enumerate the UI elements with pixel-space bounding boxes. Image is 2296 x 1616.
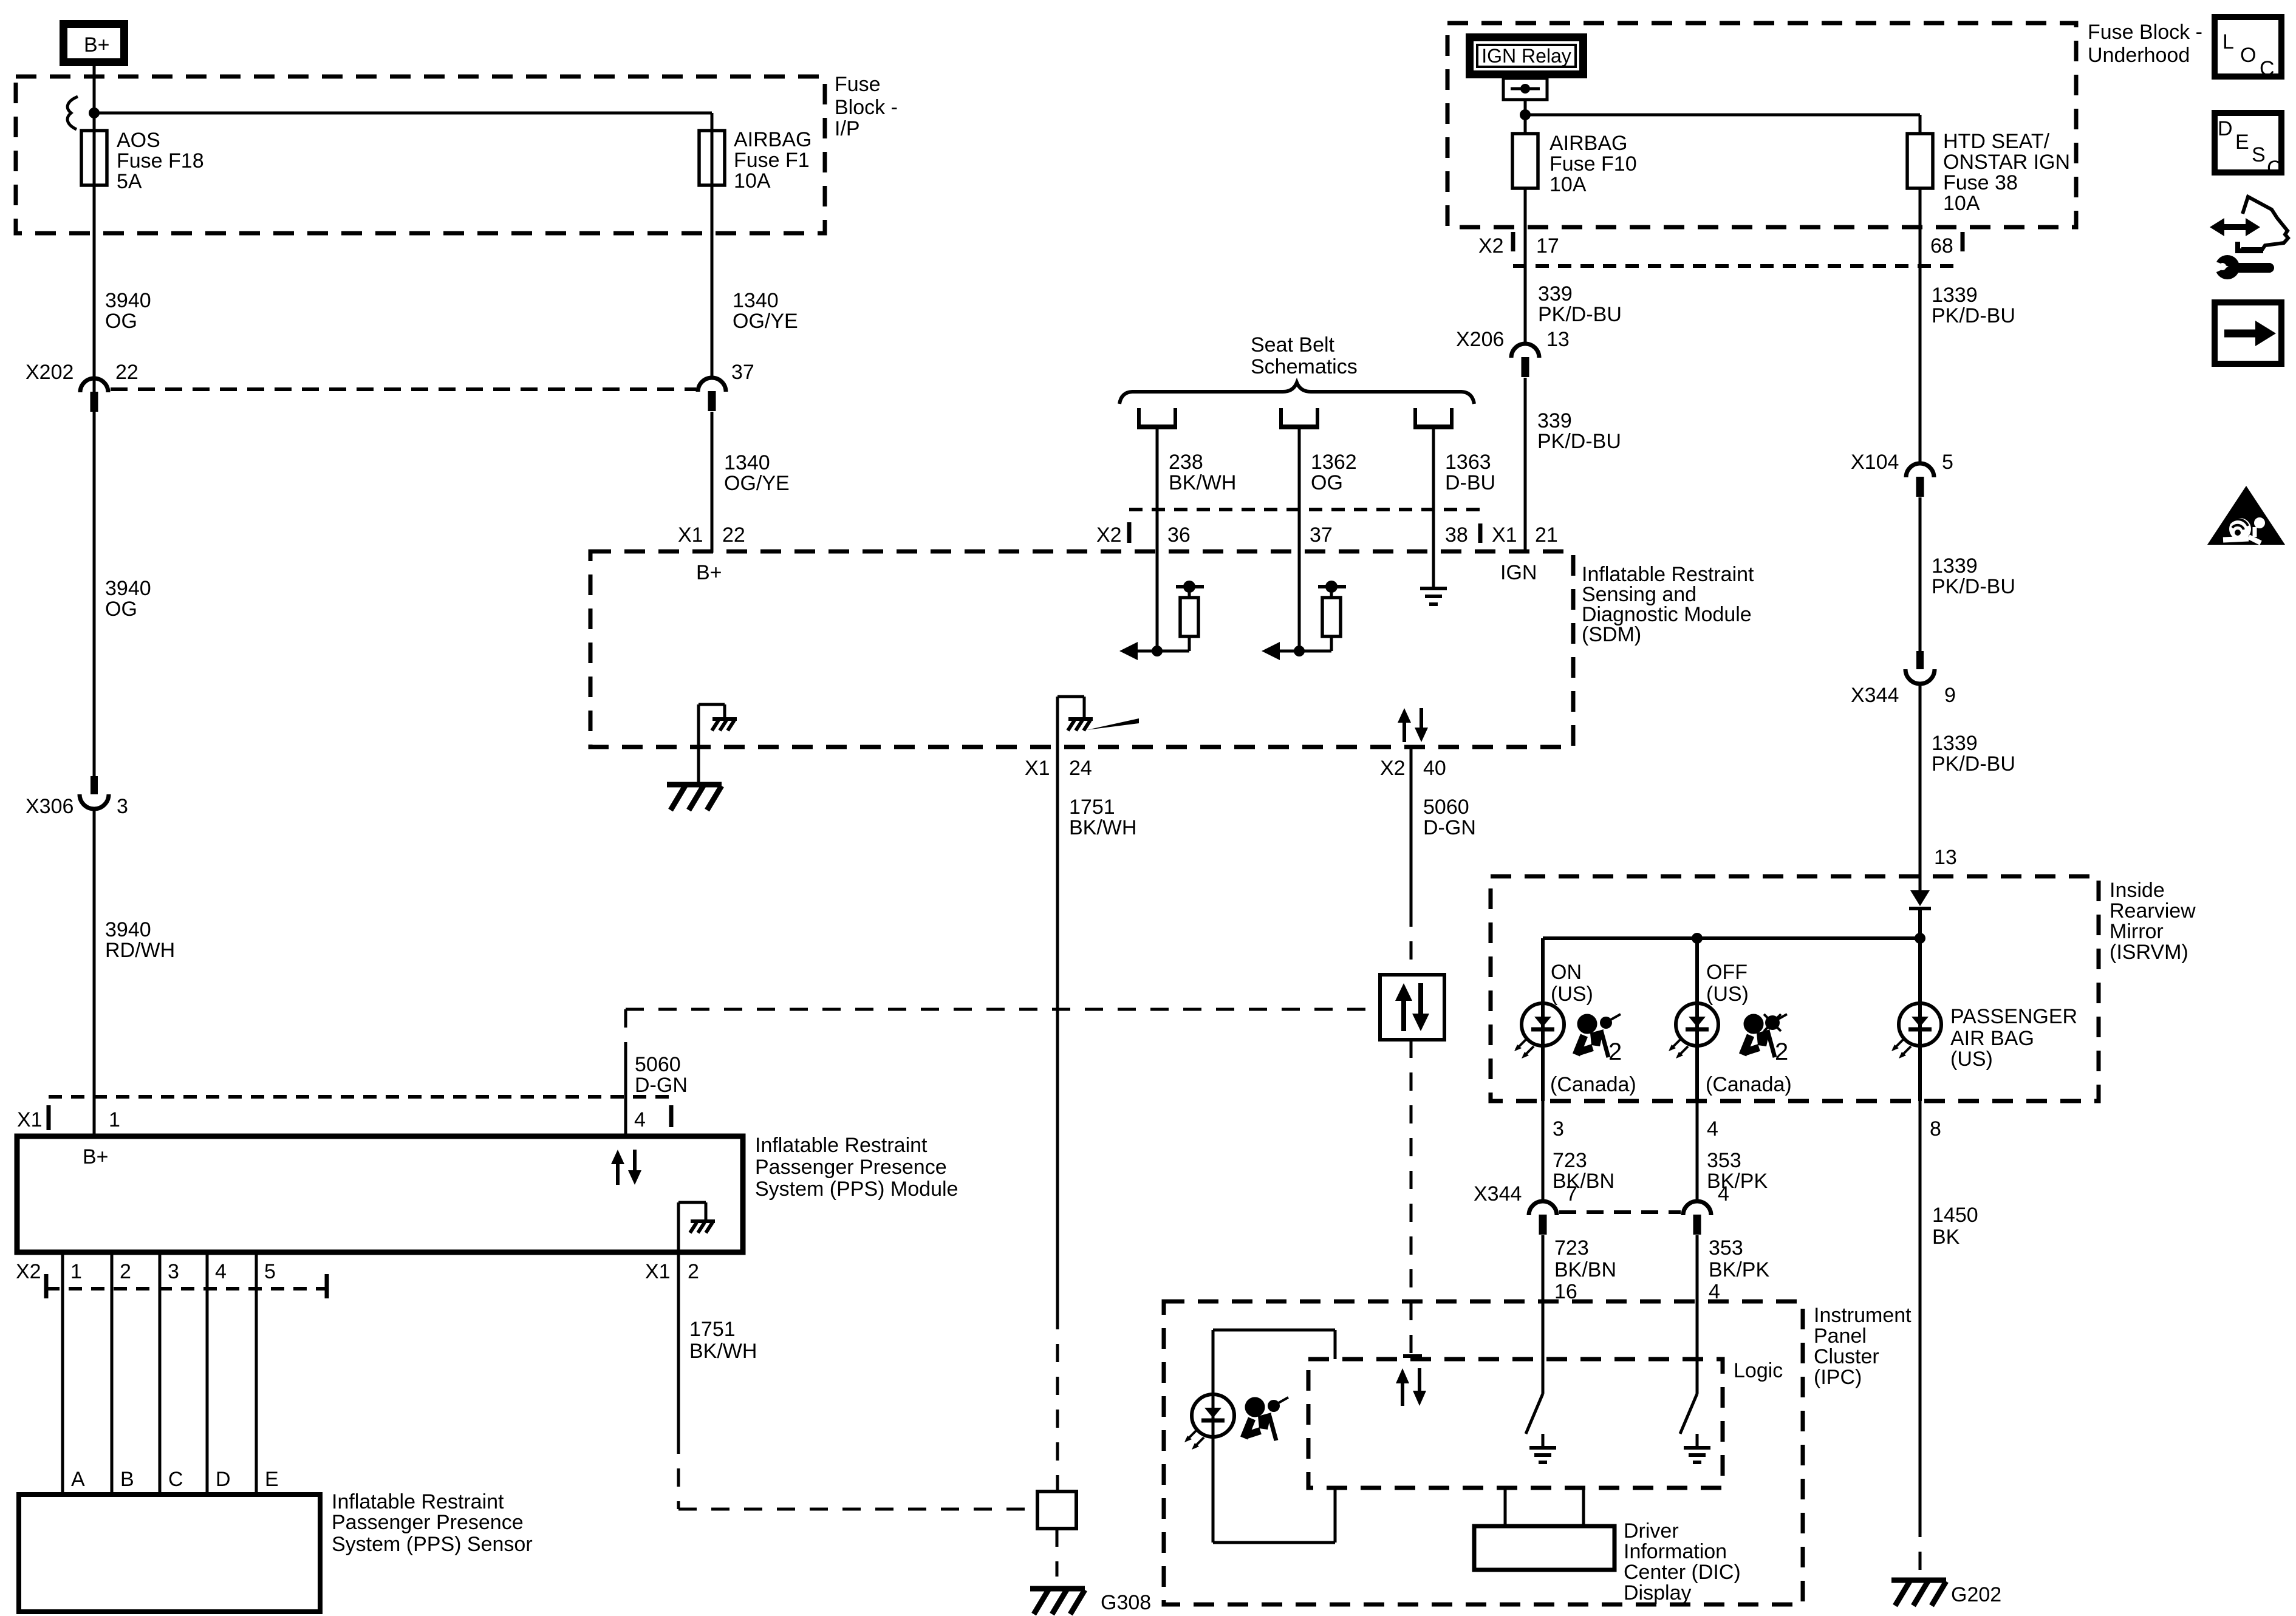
fuse block underhood dashed box — [1447, 23, 2076, 227]
svg-text:Rearview: Rearview — [2110, 899, 2196, 922]
svg-text:(IPC): (IPC) — [1814, 1366, 1862, 1389]
svg-text:9: 9 — [1944, 684, 1956, 707]
svg-text:38: 38 — [1445, 523, 1468, 547]
fuse F1 AIRBAG 10A — [711, 132, 714, 378]
brace over seat belt circuits — [1119, 383, 1474, 404]
airbag indicator icon — [1576, 1014, 1622, 1065]
diode on wire 13 — [1910, 890, 1930, 906]
svg-text:OG: OG — [105, 310, 137, 333]
svg-text:Driver: Driver — [1624, 1519, 1679, 1543]
connector X202 dashed pass-through line — [111, 387, 696, 391]
svg-text:1339: 1339 — [1932, 732, 1978, 755]
svg-text:BK/WH: BK/WH — [1169, 471, 1236, 494]
svg-text:Center (DIC): Center (DIC) — [1624, 1561, 1741, 1584]
wire 3940 OG to X306 — [93, 412, 96, 776]
wire 723 BK/BN 16 to IPC — [1542, 1235, 1545, 1394]
IPC dashed box — [1164, 1301, 1803, 1604]
wire 3940 RD/WH to PPS module — [93, 809, 96, 1136]
wire relay to fuses — [1524, 100, 1527, 135]
svg-text:353: 353 — [1707, 1149, 1741, 1172]
svg-text:1362: 1362 — [1311, 451, 1357, 474]
svg-text:AIR BAG: AIR BAG — [1950, 1027, 2034, 1050]
svg-text:353: 353 — [1709, 1236, 1743, 1260]
svg-text:BK/PK: BK/PK — [1707, 1170, 1768, 1193]
wire 5060 dashed to IPC logic — [1410, 1040, 1413, 1355]
svg-text:723: 723 — [1553, 1149, 1587, 1172]
svg-text:4: 4 — [215, 1260, 227, 1283]
svg-text:O: O — [2240, 44, 2256, 67]
SDM case ground below module — [667, 782, 722, 788]
svg-text:X202: X202 — [26, 361, 73, 384]
fuse F18 AOS 5A — [93, 113, 96, 395]
svg-text:723: 723 — [1554, 1236, 1589, 1260]
svg-text:PK/D-BU: PK/D-BU — [1932, 304, 2015, 327]
fuse block I/P dashed box — [16, 77, 825, 233]
wire 1450 BK — [1919, 1101, 1922, 1519]
svg-text:X2: X2 — [16, 1260, 41, 1283]
svg-text:3940: 3940 — [105, 289, 151, 312]
SDM module dashed box — [590, 551, 1573, 747]
svg-text:5A: 5A — [117, 170, 142, 193]
svg-text:BK: BK — [1932, 1226, 1960, 1249]
SDM seat belt input resistors — [1156, 550, 1159, 651]
lamp OFF (US) — [1695, 938, 1699, 1101]
fuse 38 HTD SEAT/ONSTAR IGN 10A — [1907, 134, 1933, 188]
ISRVM lamp supply bus — [1543, 936, 1920, 940]
svg-text:ONSTAR IGN: ONSTAR IGN — [1943, 151, 2070, 174]
SDM pin X1 21 IGN — [1524, 550, 1527, 553]
svg-text:C: C — [168, 1468, 183, 1491]
svg-text:68: 68 — [1930, 234, 1953, 257]
svg-text:(Canada): (Canada) — [1550, 1073, 1636, 1096]
svg-text:3940: 3940 — [105, 918, 151, 941]
connector X306 pin 3 — [91, 776, 98, 794]
ground G202 — [1919, 1519, 1922, 1577]
lamp PASSENGER AIR BAG (US) — [1918, 938, 1922, 1101]
svg-text:B+: B+ — [84, 33, 110, 56]
fuse F10 AIRBAG 10A — [1512, 134, 1538, 188]
svg-text:B: B — [120, 1468, 134, 1491]
PPS X2 connector bracket — [46, 1287, 327, 1290]
PPS sensor box — [19, 1495, 320, 1612]
svg-text:339: 339 — [1537, 409, 1572, 432]
svg-text:OG: OG — [105, 598, 137, 621]
connector repair icon (double arrow and terminal) — [2223, 224, 2247, 230]
svg-text:Fuse: Fuse — [835, 73, 881, 96]
svg-text:Inside: Inside — [2110, 879, 2165, 902]
svg-text:1363: 1363 — [1445, 451, 1491, 474]
svg-text:D-BU: D-BU — [1445, 471, 1495, 494]
svg-text:37: 37 — [731, 361, 754, 384]
svg-text:Inflatable Restraint: Inflatable Restraint — [755, 1134, 928, 1157]
svg-text:3: 3 — [168, 1260, 179, 1283]
svg-text:Underhood: Underhood — [2088, 44, 2190, 67]
lamp ON (US) — [1541, 938, 1545, 1101]
svg-text:X1: X1 — [1025, 757, 1050, 780]
svg-text:1751: 1751 — [689, 1318, 736, 1341]
svg-text:5: 5 — [1942, 451, 1953, 474]
svg-text:(US): (US) — [1950, 1048, 1993, 1071]
PPS up-down arrows at pin 4 — [616, 1162, 620, 1185]
svg-text:D: D — [2218, 117, 2233, 140]
svg-text:Display: Display — [1624, 1581, 1691, 1604]
seat belt circuit terminal at wire 1363 — [1413, 408, 1417, 426]
svg-text:37: 37 — [1310, 523, 1333, 547]
svg-text:X1: X1 — [645, 1260, 671, 1283]
svg-text:2: 2 — [1608, 1038, 1622, 1065]
wire bus to AIRBAG fuse F1 — [94, 112, 712, 115]
svg-text:System (PPS) Sensor: System (PPS) Sensor — [332, 1533, 533, 1556]
IGN Relay box — [1470, 38, 1584, 75]
svg-text:238: 238 — [1169, 451, 1203, 474]
wire 1751 BK/WH from SDM — [1056, 747, 1059, 1311]
seat belt circuit terminal at wire 1362 — [1279, 408, 1283, 426]
IPC airbag icon — [1244, 1397, 1288, 1440]
svg-text:BK/WH: BK/WH — [1069, 816, 1136, 839]
direction arrow box — [2215, 302, 2281, 364]
svg-text:X2: X2 — [1380, 757, 1406, 780]
svg-text:13: 13 — [1546, 328, 1570, 351]
svg-text:Passenger Presence: Passenger Presence — [332, 1511, 524, 1534]
svg-text:24: 24 — [1069, 757, 1092, 780]
svg-text:Fuse 38: Fuse 38 — [1943, 171, 2018, 194]
wire 1751 BK/WH from PPS pin X1 2 — [677, 1252, 680, 1436]
svg-text:Panel: Panel — [1814, 1325, 1867, 1348]
airbag off indicator icon (crossed) — [1743, 1014, 1788, 1065]
seat belt circuit terminal at wire 238 — [1137, 408, 1141, 426]
svg-text:X2: X2 — [1096, 523, 1122, 547]
svg-text:3: 3 — [117, 795, 128, 818]
relay contact — [1503, 78, 1547, 100]
svg-text:OG/YE: OG/YE — [724, 472, 790, 495]
svg-text:5060: 5060 — [1423, 796, 1469, 819]
svg-text:5: 5 — [264, 1260, 276, 1283]
svg-text:13: 13 — [1934, 846, 1957, 869]
svg-text:1340: 1340 — [724, 451, 770, 474]
svg-text:L: L — [2223, 30, 2234, 53]
svg-text:1340: 1340 — [733, 289, 779, 312]
ISRVM dashed box — [1491, 876, 2099, 1101]
svg-text:RD/WH: RD/WH — [105, 939, 175, 962]
svg-text:G202: G202 — [1951, 1583, 2001, 1606]
svg-text:10A: 10A — [1549, 173, 1587, 196]
svg-text:X306: X306 — [26, 795, 73, 818]
svg-text:System (PPS) Module: System (PPS) Module — [755, 1178, 958, 1201]
svg-text:BK/BN: BK/BN — [1553, 1170, 1614, 1193]
airbag caution triangle — [2207, 486, 2285, 545]
svg-text:4: 4 — [1718, 1182, 1729, 1205]
svg-text:S: S — [2252, 143, 2266, 166]
svg-text:1450: 1450 — [1932, 1204, 1978, 1227]
SDM internal ground for pin 38 — [1432, 550, 1435, 588]
SDM internal ground circuit — [697, 704, 700, 783]
svg-text:3: 3 — [1553, 1117, 1564, 1140]
svg-text:D-GN: D-GN — [635, 1074, 688, 1097]
wire 5060 D-GN from SDM — [1410, 747, 1413, 909]
battery feed B+ terminal — [64, 24, 125, 63]
svg-text:Cluster: Cluster — [1814, 1345, 1879, 1368]
svg-text:40: 40 — [1423, 757, 1446, 780]
svg-text:PK/D-BU: PK/D-BU — [1538, 303, 1622, 326]
svg-text:2: 2 — [120, 1260, 131, 1283]
svg-text:10A: 10A — [1943, 192, 1980, 215]
svg-text:PASSENGER: PASSENGER — [1950, 1005, 2077, 1028]
svg-text:C: C — [2260, 57, 2275, 80]
svg-text:X344: X344 — [1851, 684, 1899, 707]
svg-text:A: A — [71, 1468, 85, 1491]
svg-text:Fuse F18: Fuse F18 — [117, 149, 204, 172]
up-down arrows at logic input — [1401, 1381, 1404, 1406]
svg-text:AIRBAG: AIRBAG — [1549, 132, 1627, 155]
svg-text:X344: X344 — [1474, 1182, 1522, 1205]
svg-text:ON: ON — [1551, 961, 1582, 984]
svg-text:(Canada): (Canada) — [1706, 1073, 1792, 1096]
bidirectional signal box on wire 5060 — [1380, 975, 1444, 1040]
ground G308 — [1030, 1586, 1085, 1592]
svg-text:PK/D-BU: PK/D-BU — [1537, 430, 1621, 453]
PPS module connector bracket X1 — [49, 1095, 671, 1099]
wire 339 PK/D-BU to SDM — [1524, 378, 1527, 550]
svg-text:X1: X1 — [678, 523, 703, 547]
PPS module box — [17, 1136, 743, 1252]
wire 353 BK/PK label — [1696, 1101, 1699, 1201]
svg-text:1: 1 — [70, 1260, 82, 1283]
svg-text:10A: 10A — [734, 169, 771, 193]
inline connector to ground — [1037, 1492, 1076, 1529]
svg-text:C: C — [2267, 157, 2282, 180]
svg-text:BK/WH: BK/WH — [689, 1340, 757, 1363]
wire 1751 dashed from SDM to connector — [1056, 1311, 1059, 1492]
svg-text:22: 22 — [115, 361, 138, 384]
wire B+ to fuse block — [93, 66, 96, 113]
svg-text:22: 22 — [722, 523, 745, 547]
svg-text:PK/D-BU: PK/D-BU — [1932, 575, 2015, 598]
svg-text:B+: B+ — [83, 1145, 109, 1168]
svg-text:X2: X2 — [1478, 234, 1504, 257]
svg-text:(SDM): (SDM) — [1582, 623, 1641, 646]
junction dot at B+ bus — [89, 107, 100, 118]
svg-text:Fuse F1: Fuse F1 — [734, 149, 810, 172]
svg-text:D: D — [216, 1468, 231, 1491]
svg-text:B+: B+ — [696, 561, 722, 584]
svg-text:G308: G308 — [1101, 1591, 1151, 1614]
svg-text:E: E — [2235, 131, 2249, 154]
svg-text:17: 17 — [1536, 234, 1559, 257]
svg-text:Instrument: Instrument — [1814, 1304, 1912, 1327]
svg-text:X1: X1 — [1492, 523, 1517, 547]
svg-text:1339: 1339 — [1932, 284, 1978, 307]
svg-text:339: 339 — [1538, 282, 1573, 305]
wire 1340 OG/YE below connector — [711, 412, 714, 550]
svg-text:Schematics: Schematics — [1251, 355, 1358, 378]
svg-text:IGN Relay: IGN Relay — [1481, 45, 1571, 67]
wrench icon — [2215, 255, 2240, 279]
svg-text:Fuse Block -: Fuse Block - — [2088, 21, 2202, 44]
svg-text:X206: X206 — [1456, 328, 1504, 351]
svg-text:D-GN: D-GN — [1423, 816, 1476, 839]
IPC airbag warning lamp loop — [1213, 1329, 1335, 1332]
SDM connector bracket X2 pins 36 37 38 — [1129, 508, 1480, 511]
DESC legend box — [2215, 113, 2281, 172]
svg-text:OFF: OFF — [1706, 961, 1748, 984]
connector X344 pin 9 — [1916, 651, 1924, 669]
svg-text:OG: OG — [1311, 471, 1343, 494]
svg-text:8: 8 — [1930, 1117, 1941, 1140]
wire 353 BK/PK 4 to IPC — [1696, 1235, 1699, 1394]
SDM up-down arrows at pin X2 40 — [1403, 720, 1406, 742]
svg-text:2: 2 — [688, 1260, 699, 1283]
svg-text:IGN: IGN — [1500, 561, 1537, 584]
svg-text:4: 4 — [1707, 1117, 1718, 1140]
LOC legend box — [2215, 17, 2281, 77]
svg-text:I/P: I/P — [835, 117, 860, 140]
svg-text:21: 21 — [1535, 523, 1558, 547]
svg-text:5060: 5060 — [635, 1053, 681, 1076]
switch to ground for wire 16 — [1526, 1394, 1543, 1434]
svg-text:E: E — [265, 1468, 279, 1491]
svg-text:BK/PK: BK/PK — [1709, 1258, 1769, 1281]
PPS internal ground — [677, 1202, 680, 1252]
svg-text:1: 1 — [109, 1108, 120, 1131]
svg-text:(US): (US) — [1706, 983, 1749, 1006]
svg-text:OG/YE: OG/YE — [733, 310, 798, 333]
svg-text:AIRBAG: AIRBAG — [734, 128, 811, 151]
svg-text:X104: X104 — [1851, 451, 1899, 474]
switch to ground for wire 4 — [1680, 1394, 1697, 1434]
svg-text:(US): (US) — [1551, 983, 1593, 1006]
svg-text:4: 4 — [634, 1108, 646, 1131]
svg-text:Information: Information — [1624, 1540, 1727, 1563]
svg-text:X1: X1 — [17, 1108, 43, 1131]
svg-text:Fuse F10: Fuse F10 — [1549, 152, 1637, 176]
svg-text:PK/D-BU: PK/D-BU — [1932, 752, 2015, 776]
svg-text:Block -: Block - — [835, 96, 898, 119]
svg-text:HTD SEAT/: HTD SEAT/ — [1943, 130, 2050, 153]
wire 723 BK/BN label — [1542, 1101, 1545, 1201]
svg-text:Seat Belt: Seat Belt — [1251, 333, 1335, 356]
svg-text:BK/BN: BK/BN — [1554, 1258, 1616, 1281]
svg-text:1339: 1339 — [1932, 554, 1978, 578]
svg-text:Inflatable Restraint: Inflatable Restraint — [332, 1490, 504, 1513]
logic dashed box — [1308, 1359, 1723, 1488]
splice clip symbol — [67, 97, 78, 129]
SDM seat belt switch to pin X1 24 — [1056, 697, 1059, 747]
svg-text:7: 7 — [1566, 1182, 1577, 1205]
wire 5060 dashed branch to PPS — [626, 1008, 1380, 1011]
IPC warning lamp LED — [1192, 1394, 1234, 1437]
PPS sensor wires A-E — [61, 1252, 64, 1495]
svg-text:Passenger Presence: Passenger Presence — [755, 1156, 947, 1179]
svg-text:AOS: AOS — [117, 129, 160, 152]
DIC display box — [1504, 1488, 1507, 1526]
svg-text:36: 36 — [1167, 523, 1191, 547]
svg-text:(ISRVM): (ISRVM) — [2110, 941, 2188, 964]
svg-text:Mirror: Mirror — [2110, 920, 2164, 943]
svg-text:2: 2 — [1775, 1038, 1788, 1065]
wire 5060 dashed to arrow box — [1410, 909, 1413, 975]
svg-text:Logic: Logic — [1734, 1359, 1783, 1382]
svg-text:1751: 1751 — [1069, 796, 1115, 819]
svg-text:3940: 3940 — [105, 577, 151, 600]
